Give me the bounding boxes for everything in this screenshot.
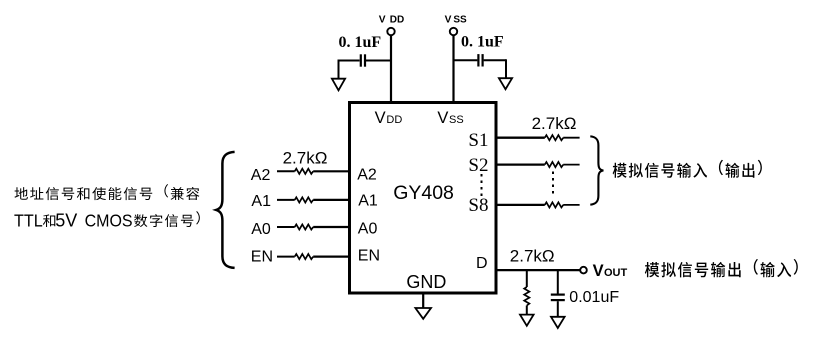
svg-text:TTL: TTL: [14, 211, 43, 231]
svg-text:V: V: [375, 109, 386, 127]
svg-text:A1: A1: [358, 193, 378, 210]
svg-text:5V: 5V: [55, 210, 77, 230]
resistor R-S2 with wire: [496, 162, 580, 167]
wire VSS to IC: [452, 35, 454, 102]
svg-text:2.7kΩ: 2.7kΩ: [510, 247, 555, 266]
resistor R-A0 with wire: [277, 224, 350, 229]
svg-text:SS: SS: [453, 14, 467, 25]
svg-text:0. 1uF: 0. 1uF: [461, 34, 504, 51]
ground (C2): [499, 78, 512, 89]
resistor R-A1 with wire: [277, 197, 350, 202]
svg-text:A0: A0: [251, 221, 271, 238]
terminal VDD: [379, 14, 404, 35]
terminal VSS: [445, 14, 467, 35]
IC U1 GY408 body: [350, 103, 497, 294]
resistor R-EN with wire: [277, 254, 350, 259]
svg-text:A2: A2: [251, 167, 271, 184]
svg-text:GY408: GY408: [393, 182, 454, 204]
svg-text:S8: S8: [468, 195, 488, 216]
ground (GND pin): [415, 308, 431, 319]
label analog signal out (Chinese): [645, 259, 798, 277]
svg-text:EN: EN: [251, 248, 273, 265]
resistor R-S1 with wire: [496, 135, 580, 140]
svg-text:GND: GND: [406, 272, 446, 292]
capacitor C3 0.01uF: [551, 269, 565, 317]
svg-text:A0: A0: [358, 221, 378, 238]
brace left group: [216, 152, 234, 268]
svg-text:S2: S2: [468, 155, 488, 176]
svg-text:OUT: OUT: [604, 267, 628, 279]
brace right group: [590, 136, 603, 204]
pin label VDD (inside): [375, 109, 403, 127]
svg-text:V: V: [445, 14, 452, 25]
terminal VOUT: [580, 262, 627, 280]
svg-text:DD: DD: [390, 14, 404, 25]
svg-text:2.7kΩ: 2.7kΩ: [532, 114, 577, 133]
ground (C3): [551, 317, 565, 328]
svg-text:SS: SS: [449, 114, 464, 126]
svg-text:A2: A2: [357, 166, 377, 183]
wire D to VOUT: [496, 269, 581, 271]
resistor R-D pulldown: [524, 269, 529, 315]
svg-text:V: V: [379, 14, 386, 25]
svg-text:S1: S1: [468, 130, 488, 151]
ground (R-D): [520, 315, 534, 326]
svg-text:CMOS: CMOS: [85, 211, 133, 231]
svg-text:A1: A1: [251, 193, 271, 210]
capacitor C1 0.1uF (VDD bypass): [339, 54, 392, 78]
svg-text:2.7kΩ: 2.7kΩ: [283, 148, 328, 167]
label address/enable (Chinese line 1): [15, 184, 200, 200]
svg-text:EN: EN: [358, 247, 380, 264]
resistor R-A2 with wire: [277, 169, 350, 174]
wire VDD to IC: [390, 35, 392, 102]
resistor R-S8 with wire: [496, 202, 580, 207]
svg-text:V: V: [593, 262, 604, 280]
wire GND: [422, 293, 424, 308]
svg-text:D: D: [476, 255, 488, 272]
svg-text:0. 1uF: 0. 1uF: [339, 34, 382, 51]
dotted line S2..S8 (between resistors): [552, 172, 554, 198]
label analog signal in (Chinese): [613, 160, 762, 178]
capacitor C2 0.1uF (VSS bypass): [454, 54, 507, 78]
svg-text:0.01uF: 0.01uF: [569, 289, 619, 306]
dotted line S2..S8 (inside IC): [481, 174, 483, 197]
pin label VSS (inside): [437, 109, 463, 127]
svg-text:DD: DD: [386, 114, 402, 126]
label address/enable (Chinese line 2): [14, 210, 200, 230]
ground (C1): [332, 79, 345, 91]
svg-text:V: V: [437, 109, 448, 127]
